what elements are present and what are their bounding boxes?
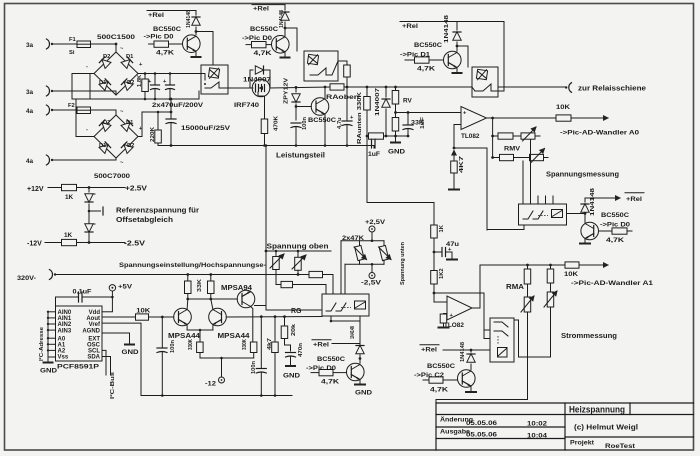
- svg-text:500C1500: 500C1500: [97, 34, 136, 41]
- wire 330K join to -12V tap: [200, 357, 254, 359]
- terminal -12V: [219, 377, 225, 383]
- wire 4a to fuse F2: [53, 109, 77, 111]
- svg-text:MPSA44: MPSA44: [168, 333, 200, 340]
- wire emitters join: [187, 329, 213, 331]
- svg-text:D1: D1: [126, 120, 134, 126]
- resistor 4,7K (drive6): [311, 372, 319, 374]
- ground (drive1 emitter): [195, 51, 197, 56]
- svg-text:RoeTest: RoeTest: [605, 443, 636, 450]
- wire Aout to 10K: [102, 316, 136, 318]
- svg-text:MPSA44: MPSA44: [218, 333, 250, 340]
- svg-text:-: -: [86, 64, 88, 70]
- svg-text:AIN2: AIN2: [58, 322, 72, 328]
- svg-text:4a: 4a: [26, 108, 34, 115]
- svg-text:Projekt: Projekt: [570, 440, 595, 447]
- svg-text:15000uF/25V: 15000uF/25V: [181, 125, 231, 132]
- svg-text:05.05.06: 05.05.06: [466, 420, 498, 427]
- wires 2x47K bridge to relay K6: [340, 241, 342, 294]
- capacitor 1uF (rail coupling): [373, 146, 375, 149]
- svg-text:BC550C: BC550C: [308, 117, 336, 124]
- svg-text:GND: GND: [122, 349, 139, 356]
- svg-text:4,7K: 4,7K: [156, 50, 175, 57]
- svg-text:->Pic-AD-Wandler A1: ->Pic-AD-Wandler A1: [571, 280, 654, 287]
- wire trimmer chain to title area: [436, 400, 528, 404]
- resistor 33K (diff pair right): [209, 273, 212, 276]
- svg-text:Spannung unten: Spannung unten: [400, 242, 406, 285]
- diode D1 (bridge2 top-right): [121, 120, 133, 132]
- trimmer (Spannung oben right): [297, 251, 299, 257]
- transistor MPSA44 (left): [174, 308, 192, 326]
- offset tap: [88, 210, 91, 213]
- svg-text:PCF8591P: PCF8591P: [57, 364, 100, 371]
- wire bridge2 minus: [76, 99, 94, 137]
- svg-text:+Rel: +Rel: [148, 12, 164, 19]
- svg-text:AIN3: AIN3: [58, 328, 72, 334]
- svg-text:470n: 470n: [298, 343, 304, 357]
- resistor EG: [281, 281, 293, 287]
- resistor RAoben (in bus): [330, 84, 344, 90]
- wire Vdd pin stub: [102, 311, 112, 313]
- wire divider to opamp1: [396, 112, 462, 114]
- svg-text:Referenzspannung für: Referenzspannung für: [116, 208, 199, 215]
- svg-text:+2.5V: +2.5V: [125, 186, 147, 193]
- wire HV rail down to relay6: [266, 146, 322, 311]
- svg-text:(c) Helmut Weigl: (c) Helmut Weigl: [574, 425, 638, 432]
- bottom rail: [141, 395, 292, 397]
- diode D1 (bridge1 top-right): [121, 57, 133, 69]
- capacitor 4,7u: [346, 86, 349, 89]
- ground (drive5 emitter): [470, 386, 472, 391]
- trimmer RMV row1: [521, 133, 535, 139]
- svg-text:Offsetabgleich: Offsetabgleich: [116, 217, 173, 224]
- svg-text:100n: 100n: [170, 340, 176, 353]
- svg-text:4,7K: 4,7K: [417, 66, 436, 73]
- wire F1 to bridge1 top: [91, 43, 117, 45]
- bridge rectifier 500C7000 diamond: [94, 115, 138, 158]
- svg-text:D1: D1: [99, 143, 107, 149]
- svg-text:GND: GND: [355, 390, 372, 397]
- resistor (320V series): [309, 271, 323, 277]
- trimmer RMV row2: [530, 154, 544, 160]
- svg-text:RAunten 330K: RAunten 330K: [357, 91, 363, 144]
- svg-text:BC550C: BC550C: [250, 26, 278, 33]
- resistor 33K (diff pair left): [186, 273, 189, 276]
- connector zur Relaisschiene: [569, 83, 572, 93]
- svg-text:GND: GND: [40, 368, 57, 375]
- svg-text:-12V: -12V: [27, 241, 42, 248]
- svg-text:3a: 3a: [26, 89, 34, 96]
- svg-text:AGND: AGND: [82, 328, 100, 334]
- ground GND (470n): [285, 365, 296, 367]
- svg-text:1K: 1K: [439, 224, 445, 232]
- wire to opamp2 inverting input: [434, 293, 447, 302]
- resistor RMA row1: [527, 265, 529, 269]
- svg-text:IRF740: IRF740: [234, 102, 260, 109]
- wire bridge1 plus rail: [138, 73, 201, 75]
- wire collector bus y=299: [188, 298, 238, 300]
- trimmer (Spannung oben left): [275, 251, 277, 257]
- svg-text:4K7: 4K7: [459, 156, 465, 173]
- resistor 33K (divider): [392, 118, 399, 132]
- svg-text:I²C-Bus: I²C-Bus: [109, 372, 116, 399]
- trimmer RMA row2: [547, 292, 554, 307]
- wire Vref to bottom rail: [102, 323, 141, 395]
- wire collector to relay1 coil: [196, 32, 213, 66]
- MOSFET IRF740: [252, 79, 270, 97]
- diode D2 (bridge2 top-left): [99, 120, 111, 132]
- wire minus rail y99: [72, 74, 199, 100]
- svg-text:-12: -12: [205, 381, 217, 388]
- wire 3a lower to bridge1 bottom: [53, 91, 116, 95]
- resistor 1K (+12V): [62, 184, 77, 190]
- svg-text:1K: 1K: [65, 194, 74, 201]
- svg-text:Aout: Aout: [86, 316, 100, 322]
- svg-text:1N4007: 1N4007: [375, 88, 381, 116]
- relay K4 (Strommessung): [490, 318, 514, 362]
- svg-text:F2: F2: [68, 103, 75, 109]
- svg-text:D1: D1: [126, 54, 134, 60]
- diode D2 (bridge1 top-left): [99, 57, 111, 69]
- svg-text:100n: 100n: [251, 361, 257, 374]
- svg-text:1N4148: 1N4148: [444, 14, 450, 43]
- zener (ref lower): [85, 224, 93, 232]
- svg-text:2x470uF/200V: 2x470uF/200V: [152, 102, 204, 109]
- ground (drive2 emitter): [284, 52, 286, 57]
- svg-text:Spannungsmessung: Spannungsmessung: [546, 172, 619, 179]
- svg-text:+Rel: +Rel: [626, 196, 642, 203]
- wire +Rel down to relay3 right: [503, 22, 505, 92]
- resistor RMV row2: [493, 157, 500, 159]
- wire collector to relay3: [457, 46, 468, 67]
- svg-text:-2,5V: -2,5V: [361, 280, 382, 287]
- svg-text:D2: D2: [127, 80, 134, 86]
- svg-text:Si: Si: [69, 50, 75, 56]
- svg-text:330K: 330K: [188, 338, 194, 350]
- svg-text:SCL: SCL: [88, 349, 100, 355]
- zener (ref upper): [88, 188, 90, 193]
- diode D2 (bridge2 bottom-right): [121, 142, 133, 154]
- capacitor 2x470uF/200V (second): [169, 74, 171, 86]
- ground (drive3 emitter): [456, 68, 458, 73]
- diode 1N4007 (sense): [385, 86, 388, 89]
- svg-text:BC550C: BC550C: [414, 42, 442, 49]
- svg-text:OSC: OSC: [87, 343, 101, 349]
- bridge rectifier 500C1500 diamond: [94, 52, 138, 95]
- svg-text:RMA: RMA: [506, 284, 524, 291]
- svg-text:33K: 33K: [197, 278, 203, 292]
- svg-text:Strommessung: Strommessung: [561, 333, 617, 340]
- svg-text:470K: 470K: [274, 115, 280, 131]
- wire bridge2 plus up to rail: [138, 112, 171, 137]
- relay K1: [201, 65, 228, 94]
- svg-text:1K2: 1K2: [439, 268, 445, 279]
- resistor RAunten (horizontal): [369, 133, 384, 139]
- svg-text:1N4148: 1N4148: [186, 9, 192, 28]
- svg-text:4,7K: 4,7K: [606, 237, 625, 244]
- svg-text:1K: 1K: [64, 232, 73, 239]
- zener ZPY12V: [295, 86, 298, 89]
- svg-text:1N4148: 1N4148: [350, 326, 356, 339]
- svg-text:4,7K: 4,7K: [321, 379, 340, 386]
- svg-text:Spannungseinstellung/Hochspann: Spannungseinstellung/Hochspannungse-: [119, 262, 266, 269]
- svg-text:1N4148: 1N4148: [460, 341, 466, 362]
- svg-text:+12V: +12V: [27, 186, 44, 193]
- wire 3a to fuse F1: [53, 43, 77, 45]
- svg-text:Spannung oben: Spannung oben: [267, 244, 329, 251]
- svg-text:1N4148: 1N4148: [590, 187, 596, 216]
- svg-text:10:02: 10:02: [527, 421, 548, 428]
- svg-text:-2.5V: -2.5V: [124, 241, 145, 248]
- wire Spannung oben top: [266, 250, 331, 252]
- svg-text:1uF: 1uF: [368, 151, 380, 158]
- svg-text:Vdd: Vdd: [89, 310, 101, 316]
- ground GND (divider): [395, 136, 397, 142]
- wire bridge1 minus rail: [90, 74, 94, 100]
- left address bus: [47, 312, 49, 357]
- net +Rel (drive4): [585, 197, 620, 199]
- svg-text:330K: 330K: [242, 338, 248, 350]
- wires relay4 right loop: [514, 320, 519, 357]
- feedback wire opamp2 to relay K4: [434, 293, 484, 339]
- wires RMV wipers down to relay K5 contacts: [522, 161, 524, 204]
- svg-text:AIN0: AIN0: [58, 310, 72, 316]
- wire relay5 lower loop: [486, 148, 488, 230]
- title block frame: [436, 403, 694, 450]
- wire F2 to bridge2 top: [91, 110, 117, 115]
- wire SDA: [102, 357, 111, 376]
- svg-text:4a: 4a: [26, 158, 34, 165]
- diode D1 (bridge1 bottom-left): [99, 79, 111, 91]
- diode D1 (bridge2 bottom-left): [99, 142, 111, 154]
- capacitor 15000uF/25V: [170, 99, 172, 119]
- transistor MPSA44 (right, mirrored): [209, 308, 227, 326]
- svg-text:GND: GND: [388, 149, 405, 156]
- svg-text:+5V: +5V: [118, 284, 133, 291]
- svg-text:->Pic D0: ->Pic D0: [242, 35, 273, 42]
- svg-text:Vref: Vref: [89, 322, 101, 328]
- svg-text:TL082: TL082: [461, 133, 480, 140]
- wire SCL: [102, 350, 106, 375]
- svg-text:10:04: 10:04: [527, 433, 548, 440]
- svg-text:10K: 10K: [564, 271, 578, 278]
- svg-text:A2: A2: [58, 349, 66, 355]
- resistor 4,7K (drive3): [405, 59, 415, 61]
- resistor bleeder (bridge1): [144, 74, 146, 80]
- transistor BC550C (discharge): [311, 98, 329, 116]
- svg-text:Leistungsteil: Leistungsteil: [276, 151, 325, 160]
- wire A1: [480, 264, 565, 266]
- svg-text:I²C-Adresse: I²C-Adresse: [38, 326, 45, 361]
- svg-text:EXT: EXT: [88, 336, 100, 342]
- resistor relay2 to bus: [346, 61, 348, 65]
- svg-text:AIN1: AIN1: [58, 316, 72, 322]
- ground (drive4 emitter): [584, 239, 586, 243]
- svg-text:+Rel: +Rel: [313, 342, 329, 349]
- resistor RAunten 330K: [366, 86, 369, 89]
- resistor RMA row2: [550, 265, 552, 269]
- svg-text:D2: D2: [127, 143, 134, 149]
- ground GND (IC Vss): [47, 357, 49, 362]
- svg-text:20k: 20k: [291, 323, 297, 336]
- svg-text:500C7000: 500C7000: [94, 173, 131, 180]
- wire collector to relay2 coil: [285, 28, 297, 51]
- svg-text:1uF: 1uF: [420, 116, 426, 129]
- svg-text:Heizspannung: Heizspannung: [569, 405, 625, 415]
- feedback wire opamp1: [454, 125, 487, 149]
- svg-text:4,7K: 4,7K: [430, 387, 449, 394]
- relay K6 (RG): [322, 294, 369, 316]
- relay K5 (Spannungsmessung): [519, 204, 567, 225]
- diode D2 (bridge1 bottom-right): [121, 79, 133, 91]
- svg-text:4,7K: 4,7K: [254, 50, 273, 57]
- svg-text:BC550C: BC550C: [427, 363, 455, 370]
- resistor 4,7K (drive5): [423, 379, 429, 381]
- svg-text:BC550C: BC550C: [317, 356, 345, 363]
- diode 1N4007 (across IRF740): [250, 70, 253, 88]
- svg-text:A1: A1: [58, 343, 66, 349]
- resistor 4,7K (drive4): [599, 230, 613, 232]
- resistor 4,7K (drive2): [252, 42, 267, 48]
- svg-text:MPSA94: MPSA94: [221, 285, 252, 292]
- terminal -2,5V (trimmer net): [371, 264, 373, 272]
- svg-text:RG: RG: [291, 308, 302, 315]
- wire RMV rows vertical: [492, 118, 494, 158]
- wire MPSA44 right base to RG node: [226, 316, 322, 319]
- svg-text:+Rel: +Rel: [253, 6, 269, 13]
- wire relay4 left stubs: [484, 338, 490, 340]
- resistor 4,7K (drive1): [149, 43, 154, 45]
- resistor 1K (-12V): [62, 239, 77, 245]
- resistor RV: [394, 86, 397, 89]
- svg-text:zur Relaisschiene: zur Relaisschiene: [578, 86, 646, 93]
- svg-text:A0: A0: [58, 336, 66, 342]
- ground GND (drive6): [359, 380, 361, 384]
- relay K2: [304, 51, 338, 81]
- svg-text:GND: GND: [283, 373, 300, 380]
- output wire A0: [487, 117, 557, 119]
- svg-text:320V-: 320V-: [17, 275, 36, 282]
- svg-text:->Pic D0: ->Pic D0: [144, 34, 175, 41]
- svg-text:+2,5V: +2,5V: [365, 219, 386, 226]
- svg-text:D2: D2: [103, 54, 110, 60]
- trimmer bridge 2x47K: [341, 240, 384, 242]
- gate wire IRF740 to 470K: [258, 92, 265, 119]
- transistor MPSA94: [237, 290, 255, 308]
- capacitor 2x470uF/200V (first): [154, 74, 156, 86]
- output wire opamp2: [472, 265, 480, 308]
- wire 4a lower to bridge2 bottom: [53, 158, 116, 160]
- wire relay6 coil to drive6 collector: [359, 316, 361, 359]
- resistor (opamp2 + input to gnd): [444, 313, 448, 316]
- svg-text:BC550C: BC550C: [601, 212, 629, 219]
- wire relay5 coil to drive4: [567, 213, 586, 215]
- svg-text:ZPY12V: ZPY12V: [284, 78, 290, 104]
- svg-text:RAoben: RAoben: [326, 94, 359, 101]
- svg-text:Vss: Vss: [58, 355, 69, 361]
- op-amp TL082 (upper): [461, 107, 487, 130]
- svg-text:3a: 3a: [26, 42, 34, 49]
- ground rail Leistungsteil y=145.5: [158, 145, 374, 147]
- wire relay1 to IRF740: [228, 87, 253, 89]
- svg-text:+Rel: +Rel: [402, 23, 418, 30]
- svg-text:RV: RV: [403, 98, 412, 105]
- wire to MPSA94 collector: [255, 305, 267, 307]
- svg-text:+Rel: +Rel: [421, 347, 437, 354]
- IC PCF8591P: [56, 306, 103, 361]
- svg-text:4,7u: 4,7u: [337, 117, 343, 129]
- svg-text:D1: D1: [99, 80, 107, 86]
- wire 320V bus: [56, 274, 309, 276]
- trimmer RMA row1: [524, 297, 531, 312]
- wire AGND to GND: [102, 333, 130, 344]
- relay K3: [472, 67, 498, 97]
- svg-text:BC550C: BC550C: [153, 26, 181, 33]
- main HV bus y=88/87: [270, 87, 330, 88]
- svg-text:F1: F1: [69, 37, 77, 43]
- terminal +5V: [109, 285, 115, 291]
- svg-text:05.05.06: 05.05.06: [466, 432, 498, 439]
- svg-text:D2: D2: [103, 120, 110, 126]
- op-amp TL082 (lower): [447, 296, 472, 320]
- resistor 10K (A1): [565, 262, 579, 268]
- resistor RMV row1: [493, 135, 498, 137]
- svg-text:SDA: SDA: [87, 355, 100, 361]
- svg-text:RMV: RMV: [504, 146, 521, 153]
- svg-text:10K: 10K: [556, 104, 570, 111]
- svg-text:-: -: [86, 127, 88, 133]
- wire below relay6: [331, 316, 360, 321]
- wire sense to 1K (Spannung unten chain): [367, 136, 434, 225]
- svg-text:->Pic-AD-Wandler A0: ->Pic-AD-Wandler A0: [560, 130, 640, 137]
